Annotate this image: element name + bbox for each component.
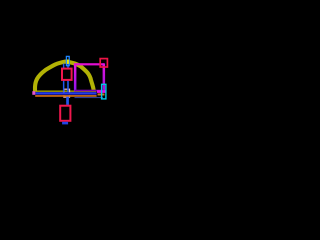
node junction dot (32, 91, 35, 95)
wire bus olive net (36, 90, 97, 92)
pin 1 (blue pin box) (66, 56, 69, 65)
node U1 boundary left edge (74, 63, 77, 91)
wire bus navy net (36, 94, 97, 95)
wire pair (blue vertical nets) (63, 64, 65, 92)
wire bus orange net (35, 95, 96, 97)
capacitor C1 (salmon box over bus) (64, 89, 70, 97)
wire dark navy net under box (75, 97, 104, 98)
resistor R2 (60, 106, 70, 121)
wire bus blue net (36, 92, 97, 94)
wire orange stub net (98, 93, 105, 95)
resistor R1 (62, 69, 72, 80)
node U1 boundary top edge (74, 63, 104, 65)
wire yellow arc net (35, 62, 94, 92)
node U1 boundary bottom edge (75, 90, 104, 92)
node U1 boundary right edge (103, 63, 106, 91)
wire magenta stub net (97, 90, 106, 93)
pin 2 (red pin box at corner) (100, 59, 107, 67)
wire yellow segment in pin (67, 60, 69, 64)
wire stub to R2 (66, 97, 69, 105)
pin 3 (cyan pin box) (102, 84, 106, 99)
pin 4 (blue pad under R2) (62, 122, 68, 125)
